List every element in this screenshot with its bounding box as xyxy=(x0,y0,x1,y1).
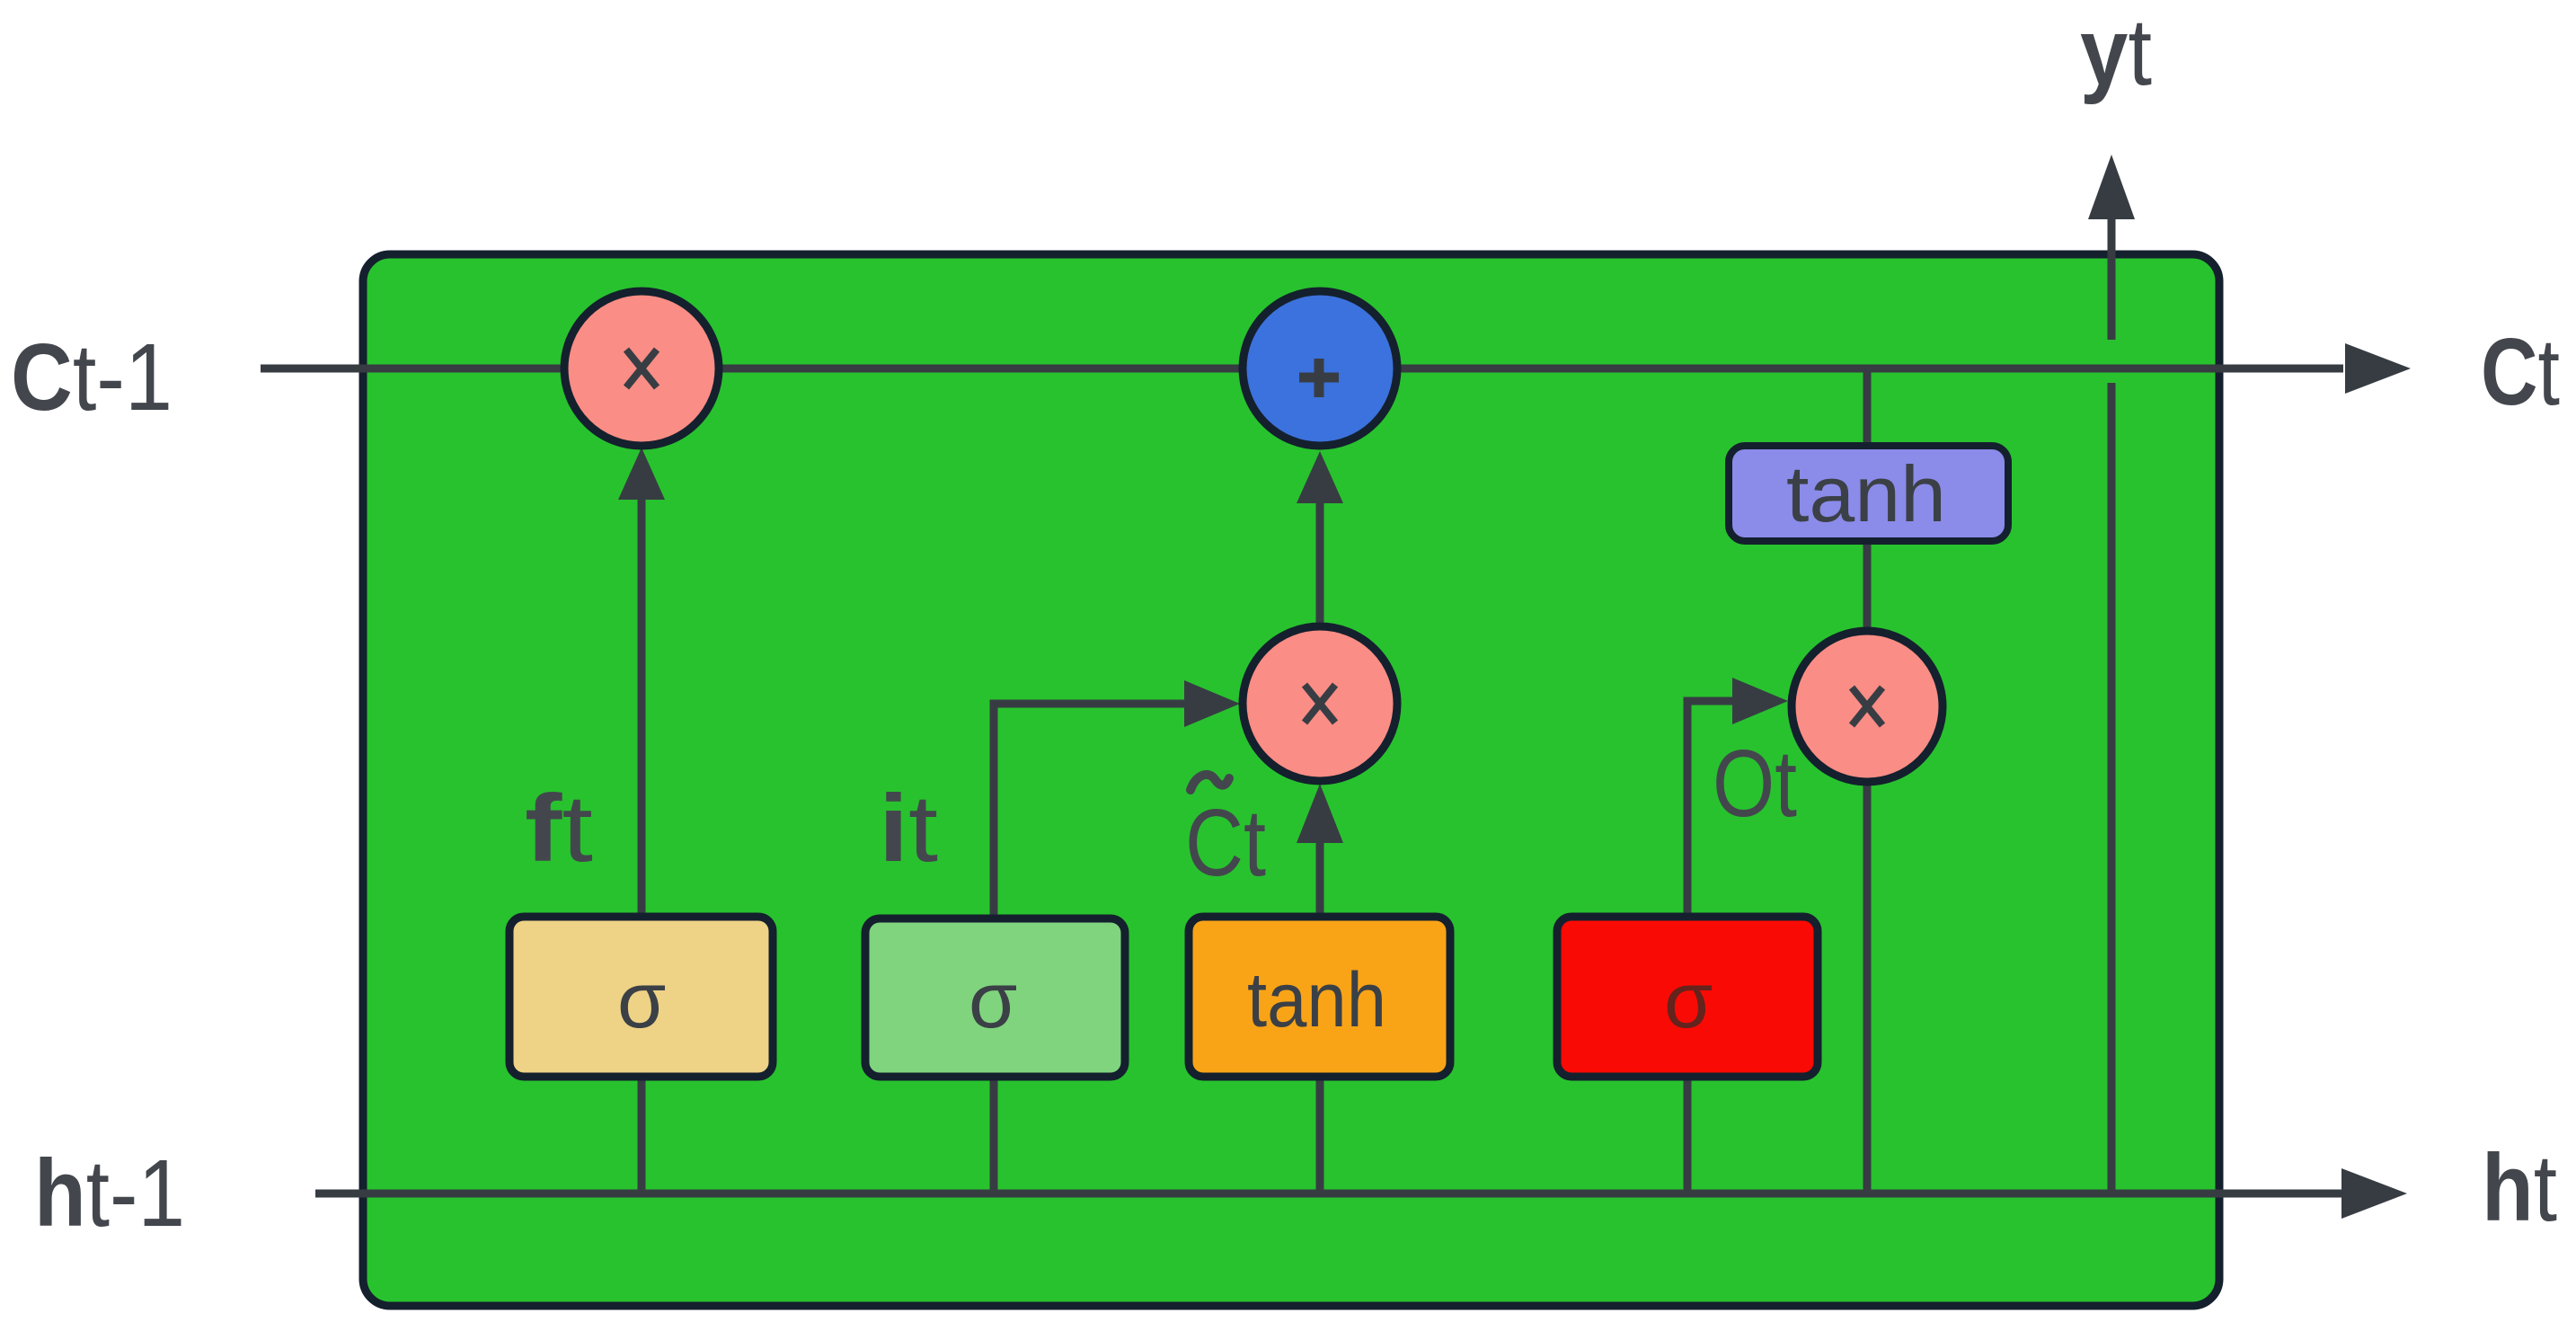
svg-text:ft: ft xyxy=(525,776,593,882)
svg-text:ht: ht xyxy=(2482,1135,2557,1241)
svg-text:Ct: Ct xyxy=(2481,319,2560,425)
svg-text:tanh: tanh xyxy=(1247,957,1386,1043)
svg-text:σ: σ xyxy=(617,955,666,1044)
svg-text:σ: σ xyxy=(1664,955,1713,1044)
svg-text:ht-1: ht-1 xyxy=(34,1140,185,1247)
svg-text:Ct: Ct xyxy=(1185,790,1266,896)
svg-text:Ot: Ot xyxy=(1713,731,1797,837)
svg-text:σ: σ xyxy=(969,955,1017,1044)
svg-text:it: it xyxy=(879,776,938,882)
svg-text:yt: yt xyxy=(2080,0,2152,105)
svg-text:Ct-1: Ct-1 xyxy=(11,324,173,430)
svg-text:tanh: tanh xyxy=(1786,449,1946,538)
